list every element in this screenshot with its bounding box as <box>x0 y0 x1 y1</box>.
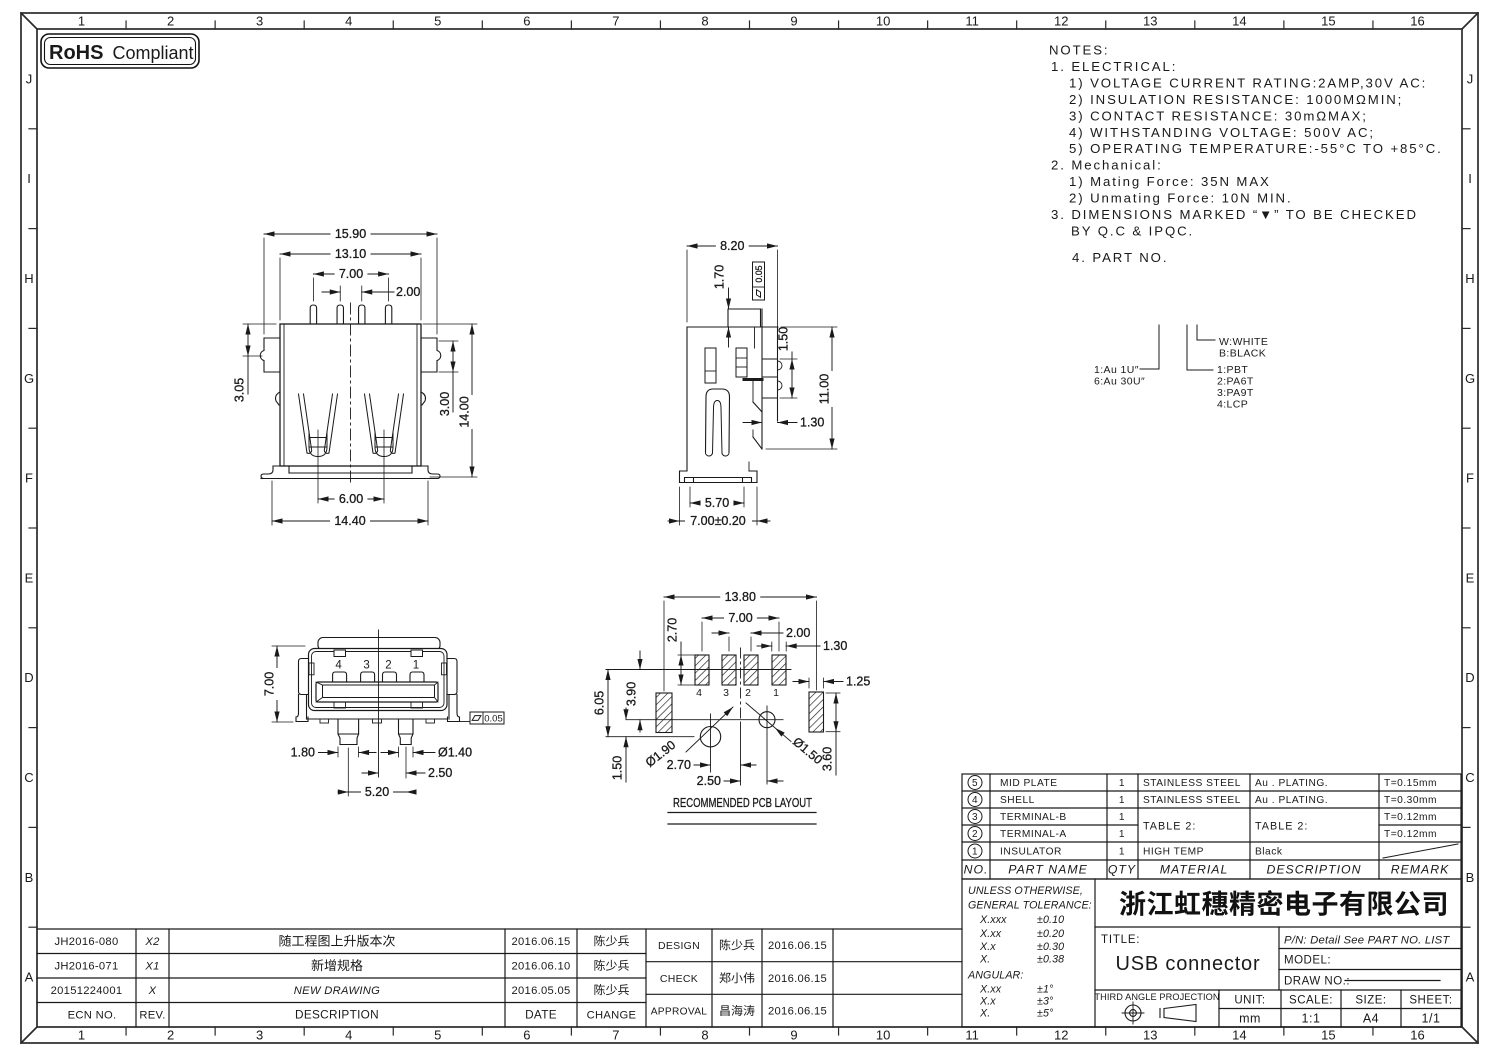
svg-text:5: 5 <box>434 1028 441 1043</box>
dim 2.70 hole <box>694 764 711 766</box>
svg-text:X.x: X.x <box>979 941 996 953</box>
dim dia 1.40 <box>398 747 400 757</box>
svg-text:1: 1 <box>413 660 419 672</box>
svg-text:1: 1 <box>1119 847 1125 858</box>
svg-text:B: B <box>25 870 34 885</box>
svg-text:INSULATOR: INSULATOR <box>1000 847 1062 858</box>
svg-text:NOTES:: NOTES: <box>1049 43 1110 58</box>
svg-text:DESIGN: DESIGN <box>658 940 700 952</box>
svg-text:11.00: 11.00 <box>818 374 832 404</box>
svg-text:X2: X2 <box>144 936 160 948</box>
svg-text:13: 13 <box>1143 14 1157 29</box>
dim 2.70 pad height <box>678 654 698 656</box>
svg-text:1: 1 <box>972 847 978 858</box>
title block <box>962 879 1461 1027</box>
svg-text:4: 4 <box>696 687 702 699</box>
svg-text:15.90: 15.90 <box>335 227 366 241</box>
left leg <box>338 719 359 745</box>
front shell <box>309 649 448 711</box>
base plate with feet <box>261 466 438 479</box>
svg-text:2.00: 2.00 <box>396 285 420 299</box>
svg-text:T=0.30mm: T=0.30mm <box>1384 795 1437 806</box>
svg-text:8: 8 <box>701 1028 708 1043</box>
svg-text:11: 11 <box>965 14 979 29</box>
notes text block <box>1049 43 1443 266</box>
svg-text:0.05: 0.05 <box>754 265 764 282</box>
svg-text:4: 4 <box>972 795 978 806</box>
tongue <box>316 682 438 702</box>
svg-text:±0.20: ±0.20 <box>1037 928 1064 940</box>
svg-text:APPROVAL: APPROVAL <box>651 1007 708 1018</box>
bottom bracket edge <box>307 718 448 720</box>
svg-text:1: 1 <box>1119 829 1125 840</box>
svg-text:MATERIAL: MATERIAL <box>1160 863 1229 877</box>
svg-text:SHEET:: SHEET: <box>1409 995 1452 1007</box>
svg-text:REMARK: REMARK <box>1391 863 1450 877</box>
svg-text:1: 1 <box>78 1028 85 1043</box>
svg-text:2016.06.15: 2016.06.15 <box>768 973 827 985</box>
svg-text:3.60: 3.60 <box>821 747 835 771</box>
dim 8.20 <box>686 250 688 322</box>
left flange <box>260 338 280 372</box>
dim 13.80 <box>663 601 665 691</box>
svg-text:6: 6 <box>523 1028 530 1043</box>
flatness callout 0.05 <box>470 712 504 724</box>
right leg <box>399 719 414 745</box>
svg-text:TERMINAL-A: TERMINAL-A <box>1000 829 1067 840</box>
svg-text:1/1: 1/1 <box>1422 1012 1441 1026</box>
svg-text:TABLE 2:: TABLE 2: <box>1143 821 1196 833</box>
dim 11.00 <box>781 326 837 328</box>
dim 14.40 <box>271 481 273 525</box>
dim 3.60 <box>826 692 840 694</box>
svg-text:USB connector: USB connector <box>1116 953 1261 975</box>
svg-text:CHECK: CHECK <box>660 973 698 985</box>
back plate <box>318 638 440 651</box>
svg-text:RoHSCompliant: RoHSCompliant <box>49 42 194 64</box>
body outline <box>686 327 688 471</box>
svg-text:SIZE:: SIZE: <box>1355 995 1386 1007</box>
svg-text:7.00: 7.00 <box>263 672 277 696</box>
hole dia1.50 <box>759 712 775 728</box>
svg-text:2) INSULATION RESISTANCE: 1000: 2) INSULATION RESISTANCE: 1000MΩMIN; <box>1069 92 1403 107</box>
svg-text:CHANGE: CHANGE <box>587 1010 637 1022</box>
svg-text:2016.06.15: 2016.06.15 <box>768 940 827 952</box>
bottom feet <box>680 471 694 483</box>
right ear <box>447 659 457 695</box>
svg-text:STAINLESS STEEL: STAINLESS STEEL <box>1143 795 1241 806</box>
shell outline <box>280 324 421 466</box>
svg-text:T=0.15mm: T=0.15mm <box>1384 778 1437 789</box>
svg-text:14: 14 <box>1232 14 1246 29</box>
dim 1.80 <box>337 747 339 757</box>
svg-text:12: 12 <box>1054 1028 1068 1043</box>
third angle projection symbol <box>1094 992 1219 1002</box>
svg-text:7.00±0.20: 7.00±0.20 <box>690 514 746 528</box>
svg-text:3. DIMENSIONS MARKED “▼” TO BE: 3. DIMENSIONS MARKED “▼” TO BE CHECKED <box>1051 207 1418 222</box>
svg-text:F: F <box>25 471 33 486</box>
svg-text:DATE: DATE <box>525 1008 557 1022</box>
svg-text:2: 2 <box>972 829 978 840</box>
svg-text:10: 10 <box>876 14 890 29</box>
svg-text:3.00: 3.00 <box>438 392 452 416</box>
svg-text:9: 9 <box>790 1028 797 1043</box>
svg-text:2016.06.10: 2016.06.10 <box>512 961 571 973</box>
svg-text:ECN NO.: ECN NO. <box>68 1010 117 1022</box>
svg-text:C: C <box>1465 770 1474 785</box>
svg-text:H: H <box>24 271 33 286</box>
svg-text:Black: Black <box>1255 847 1283 858</box>
svg-text:E: E <box>1466 570 1475 585</box>
svg-text:X1: X1 <box>144 961 159 973</box>
dim 13.10 <box>279 258 281 320</box>
tolerance box text <box>967 885 1092 1020</box>
reference lines <box>606 669 791 671</box>
svg-text:1:1: 1:1 <box>1302 1012 1321 1026</box>
svg-text:G: G <box>24 371 34 386</box>
svg-text:2: 2 <box>167 1028 174 1043</box>
svg-text:2.00: 2.00 <box>786 626 810 640</box>
svg-text:MID PLATE: MID PLATE <box>1000 778 1058 789</box>
top tab <box>728 309 761 327</box>
view A: connector front elevation <box>260 303 441 485</box>
svg-text:G: G <box>1465 371 1475 386</box>
parts list table <box>962 774 1461 879</box>
svg-text:13.80: 13.80 <box>725 590 756 604</box>
svg-text:±3°: ±3° <box>1037 996 1054 1008</box>
dim 1.25 <box>808 678 810 688</box>
svg-text:3:PA9T: 3:PA9T <box>1217 387 1254 399</box>
svg-text:GENERAL TOLERANCE:: GENERAL TOLERANCE: <box>968 900 1092 912</box>
svg-text:1: 1 <box>1119 778 1125 789</box>
svg-text:7: 7 <box>612 14 619 29</box>
left ear <box>299 659 309 695</box>
top solder pins <box>310 305 316 324</box>
svg-text:2016.06.15: 2016.06.15 <box>512 936 571 948</box>
dim 7.00 height <box>272 645 305 647</box>
svg-text:7.00: 7.00 <box>339 267 363 281</box>
hole dia1.90 <box>700 727 720 747</box>
svg-text:6.00: 6.00 <box>339 492 363 506</box>
svg-text:X: X <box>148 985 157 997</box>
right pad <box>809 692 824 732</box>
svg-text:NEW DRAWING: NEW DRAWING <box>294 985 380 997</box>
svg-text:2) Unmating Force: 10N MIN.: 2) Unmating Force: 10N MIN. <box>1069 191 1293 206</box>
svg-text:NO.: NO. <box>964 863 989 877</box>
svg-text:Au . PLATING.: Au . PLATING. <box>1255 778 1328 789</box>
bottom notches <box>334 702 346 708</box>
svg-text:1. ELECTRICAL:: 1. ELECTRICAL: <box>1051 59 1177 74</box>
svg-text:1:PBT: 1:PBT <box>1217 364 1248 376</box>
svg-text:3.90: 3.90 <box>625 682 639 706</box>
svg-text:UNLESS OTHERWISE,: UNLESS OTHERWISE, <box>968 885 1083 897</box>
dim 6.00 <box>317 430 319 503</box>
dim 1.50 <box>780 358 797 360</box>
spring contact fork <box>706 389 730 452</box>
insulator remark slash <box>1383 844 1458 858</box>
svg-text:1.50: 1.50 <box>611 756 625 780</box>
dim 5.20 <box>347 748 349 796</box>
contact spring at x=384 <box>365 394 378 453</box>
svg-text:2:PA6T: 2:PA6T <box>1217 376 1254 388</box>
svg-text:16: 16 <box>1410 14 1424 29</box>
dim 2.00 pads <box>728 637 730 651</box>
svg-text:7.00: 7.00 <box>728 611 752 625</box>
svg-text:6:Au 30U″: 6:Au 30U″ <box>1094 376 1145 388</box>
svg-text:STAINLESS STEEL: STAINLESS STEEL <box>1143 778 1241 789</box>
svg-text:MODEL:: MODEL: <box>1284 955 1331 967</box>
right foot <box>448 695 450 720</box>
svg-text:mm: mm <box>1239 1012 1261 1026</box>
svg-text:A: A <box>1466 970 1475 985</box>
dim 3.00 <box>439 340 458 342</box>
svg-text:1) VOLTAGE CURRENT RATING:2AMP: 1) VOLTAGE CURRENT RATING:2AMP,30V AC: <box>1069 75 1427 90</box>
dim 1.50 <box>625 708 627 720</box>
svg-text:2: 2 <box>385 660 391 672</box>
svg-text:B:BLACK: B:BLACK <box>1219 348 1266 360</box>
svg-text:1.25: 1.25 <box>846 675 870 689</box>
svg-text:4) WITHSTANDING VOLTAGE: 500V: 4) WITHSTANDING VOLTAGE: 500V AC; <box>1069 125 1375 140</box>
svg-text:6: 6 <box>523 14 530 29</box>
svg-text:1.50: 1.50 <box>777 327 791 351</box>
RoHS Compliant label <box>41 34 199 68</box>
svg-text:HIGH TEMP: HIGH TEMP <box>1143 847 1204 858</box>
svg-text:1.30: 1.30 <box>800 416 824 430</box>
svg-text:14: 14 <box>1232 1028 1246 1043</box>
left foot <box>306 695 308 720</box>
svg-text:1: 1 <box>78 14 85 29</box>
svg-text:3: 3 <box>723 687 729 699</box>
dim 6.05 <box>607 670 609 737</box>
svg-text:1.70: 1.70 <box>713 265 727 289</box>
svg-text:±0.10: ±0.10 <box>1037 914 1064 926</box>
svg-text:1: 1 <box>773 687 779 699</box>
svg-text:1: 1 <box>1119 812 1125 823</box>
view B: connector side elevation <box>680 309 783 483</box>
svg-text:UNIT:: UNIT: <box>1234 995 1265 1007</box>
svg-text:5) OPERATING TEMPERATURE:-55°C: 5) OPERATING TEMPERATURE:-55°C TO +85°C. <box>1069 141 1443 156</box>
svg-text:2: 2 <box>167 14 174 29</box>
svg-text:X.xx: X.xx <box>979 928 1002 940</box>
svg-text:I: I <box>27 171 31 186</box>
svg-text:A4: A4 <box>1363 1012 1379 1026</box>
dim 7.00 top <box>312 278 314 301</box>
svg-text:4: 4 <box>345 1028 352 1043</box>
dim 2.50 hole <box>724 780 741 782</box>
svg-text:X.: X. <box>979 1008 990 1020</box>
svg-text:20151224001: 20151224001 <box>51 985 123 997</box>
view C: connector top/plan view <box>296 630 470 777</box>
svg-text:T=0.12mm: T=0.12mm <box>1384 829 1437 840</box>
view D: recommended PCB layout <box>606 648 824 785</box>
dim 3.05 <box>243 323 276 325</box>
svg-text:5: 5 <box>972 778 978 789</box>
svg-text:A: A <box>25 970 34 985</box>
svg-text:13: 13 <box>1143 1028 1157 1043</box>
dim 7.00 +/-0.20 <box>679 487 681 525</box>
svg-text:4: 4 <box>335 660 342 672</box>
svg-text:14.00: 14.00 <box>458 396 472 427</box>
svg-text:±0.30: ±0.30 <box>1037 941 1064 953</box>
svg-text:B: B <box>1466 870 1475 885</box>
svg-text:BY Q.C & IPQC.: BY Q.C & IPQC. <box>1071 223 1194 238</box>
top notches <box>334 650 346 657</box>
contact spring at x=318 <box>299 394 312 453</box>
svg-text:7: 7 <box>612 1028 619 1043</box>
dim 15.90 <box>263 238 265 334</box>
svg-text:DESCRIPTION: DESCRIPTION <box>295 1008 379 1022</box>
svg-text:15: 15 <box>1321 14 1335 29</box>
svg-text:E: E <box>25 570 34 585</box>
svg-text:±0.38: ±0.38 <box>1037 954 1064 966</box>
svg-text:X.xxx: X.xxx <box>979 914 1007 926</box>
svg-text:14.40: 14.40 <box>334 514 365 528</box>
contact sections <box>705 348 716 383</box>
contact pins 4 3 2 1 <box>333 672 347 682</box>
svg-text:ANGULAR:: ANGULAR: <box>967 970 1023 982</box>
dim 1.30 <box>743 422 762 424</box>
svg-text:DRAW NO.:: DRAW NO.: <box>1284 976 1350 988</box>
svg-text:RECOMMENDED PCB LAYOUT: RECOMMENDED PCB LAYOUT <box>673 795 812 810</box>
svg-text:3: 3 <box>256 1028 263 1043</box>
dim 3.90 <box>639 651 641 670</box>
svg-text:REV.: REV. <box>139 1010 165 1022</box>
svg-text:±1°: ±1° <box>1037 984 1054 996</box>
svg-text:DESCRIPTION: DESCRIPTION <box>1266 863 1361 877</box>
svg-text:16: 16 <box>1410 1028 1424 1043</box>
svg-text:1.30: 1.30 <box>823 639 847 653</box>
revision table <box>37 929 962 1027</box>
svg-text:9: 9 <box>790 14 797 29</box>
svg-text:D: D <box>1465 670 1474 685</box>
svg-text:TABLE 2:: TABLE 2: <box>1255 821 1308 833</box>
left pad <box>656 693 672 733</box>
dim 2.00 <box>339 286 341 301</box>
svg-text:4. PART NO.: 4. PART NO. <box>1072 250 1168 265</box>
svg-text:0.05: 0.05 <box>484 714 503 725</box>
svg-text:JH2016-080: JH2016-080 <box>55 936 119 948</box>
svg-text:PART NAME: PART NAME <box>1008 863 1088 877</box>
svg-text:11: 11 <box>965 1028 979 1043</box>
svg-text:2.70: 2.70 <box>666 618 680 642</box>
svg-text:JH2016-071: JH2016-071 <box>55 961 119 973</box>
svg-text:10: 10 <box>876 1028 890 1043</box>
svg-text:2: 2 <box>745 687 751 699</box>
side latch hooks <box>276 392 281 405</box>
flatness callout 0.05 vertical <box>753 262 765 300</box>
svg-text:T=0.12mm: T=0.12mm <box>1384 812 1437 823</box>
svg-text:2. Mechanical:: 2. Mechanical: <box>1051 158 1163 173</box>
svg-text:5.20: 5.20 <box>365 785 389 799</box>
svg-text:C: C <box>24 770 33 785</box>
dim 2.50 <box>405 747 407 778</box>
svg-text:5.70: 5.70 <box>705 496 729 510</box>
terminal tail bumps <box>763 359 778 398</box>
svg-text:QTY: QTY <box>1108 863 1136 877</box>
svg-text:D: D <box>24 670 33 685</box>
company name (CJK paths) <box>1120 890 1446 916</box>
svg-text:3.05: 3.05 <box>233 378 247 402</box>
mid plate thick edge <box>744 378 762 381</box>
centerline <box>350 303 352 485</box>
dim 1.70 <box>728 288 730 309</box>
dim 7.00 pads <box>701 622 703 651</box>
svg-text:8.20: 8.20 <box>720 239 744 253</box>
svg-text:3: 3 <box>972 812 978 823</box>
svg-text:Ø1.40: Ø1.40 <box>438 746 472 760</box>
svg-text:I: I <box>1468 171 1472 186</box>
svg-text:H: H <box>1465 271 1474 286</box>
svg-text:X.xx: X.xx <box>979 984 1002 996</box>
svg-text:2016.06.15: 2016.06.15 <box>768 1006 827 1018</box>
svg-text:J: J <box>1467 71 1474 86</box>
svg-text:8: 8 <box>701 14 708 29</box>
svg-text:12: 12 <box>1054 14 1068 29</box>
svg-text:15: 15 <box>1321 1028 1335 1043</box>
svg-text:Au . PLATING.: Au . PLATING. <box>1255 795 1328 806</box>
dim 5.70 <box>689 487 691 507</box>
svg-text:TITLE:: TITLE: <box>1101 934 1140 946</box>
svg-text:13.10: 13.10 <box>335 247 366 261</box>
svg-text:SHELL: SHELL <box>1000 795 1035 806</box>
svg-text:6.05: 6.05 <box>593 691 607 715</box>
svg-text:4:LCP: 4:LCP <box>1217 399 1248 411</box>
svg-text:X.x: X.x <box>979 996 996 1008</box>
svg-text:3: 3 <box>363 660 369 672</box>
svg-text:2.50: 2.50 <box>428 766 452 780</box>
dim 1.30 <box>771 642 773 651</box>
svg-text:J: J <box>26 71 33 86</box>
right flange <box>421 338 441 372</box>
svg-text:F: F <box>1466 471 1474 486</box>
centerline <box>378 630 380 777</box>
svg-text:W:WHITE: W:WHITE <box>1219 336 1268 348</box>
cjk: rev descriptions <box>280 935 395 947</box>
svg-text:3: 3 <box>256 14 263 29</box>
steps <box>753 402 762 412</box>
svg-text:2.70: 2.70 <box>667 758 691 772</box>
svg-text:±5°: ±5° <box>1037 1008 1054 1020</box>
mid plate verticals <box>761 309 763 449</box>
part number callout <box>1140 325 1215 370</box>
svg-text:1.80: 1.80 <box>291 746 315 760</box>
svg-text:4: 4 <box>345 14 352 29</box>
svg-text:5: 5 <box>434 14 441 29</box>
svg-text:1: 1 <box>1119 795 1125 806</box>
svg-text:SCALE:: SCALE: <box>1289 995 1333 1007</box>
svg-text:3) CONTACT RESISTANCE: 30mΩMAX: 3) CONTACT RESISTANCE: 30mΩMAX; <box>1069 108 1368 123</box>
leader dia1.90 <box>686 707 733 752</box>
svg-text:P/N: Detail See PART NO. LIST: P/N: Detail See PART NO. LIST <box>1284 935 1450 947</box>
svg-text:1:Au 1U″: 1:Au 1U″ <box>1094 364 1139 376</box>
pad row hatched pads <box>695 655 709 685</box>
svg-text:TERMINAL-B: TERMINAL-B <box>1000 812 1067 823</box>
svg-text:2.50: 2.50 <box>697 774 721 788</box>
leader dia1.50 <box>746 703 791 742</box>
svg-text:X.: X. <box>979 954 990 966</box>
dim 14.00 <box>423 323 477 325</box>
svg-text:1) Mating Force: 35N MAX: 1) Mating Force: 35N MAX <box>1069 174 1271 189</box>
svg-text:2016.05.05: 2016.05.05 <box>512 985 571 997</box>
svg-text:THIRD ANGLE PROJECTION: THIRD ANGLE PROJECTION <box>1094 992 1219 1002</box>
